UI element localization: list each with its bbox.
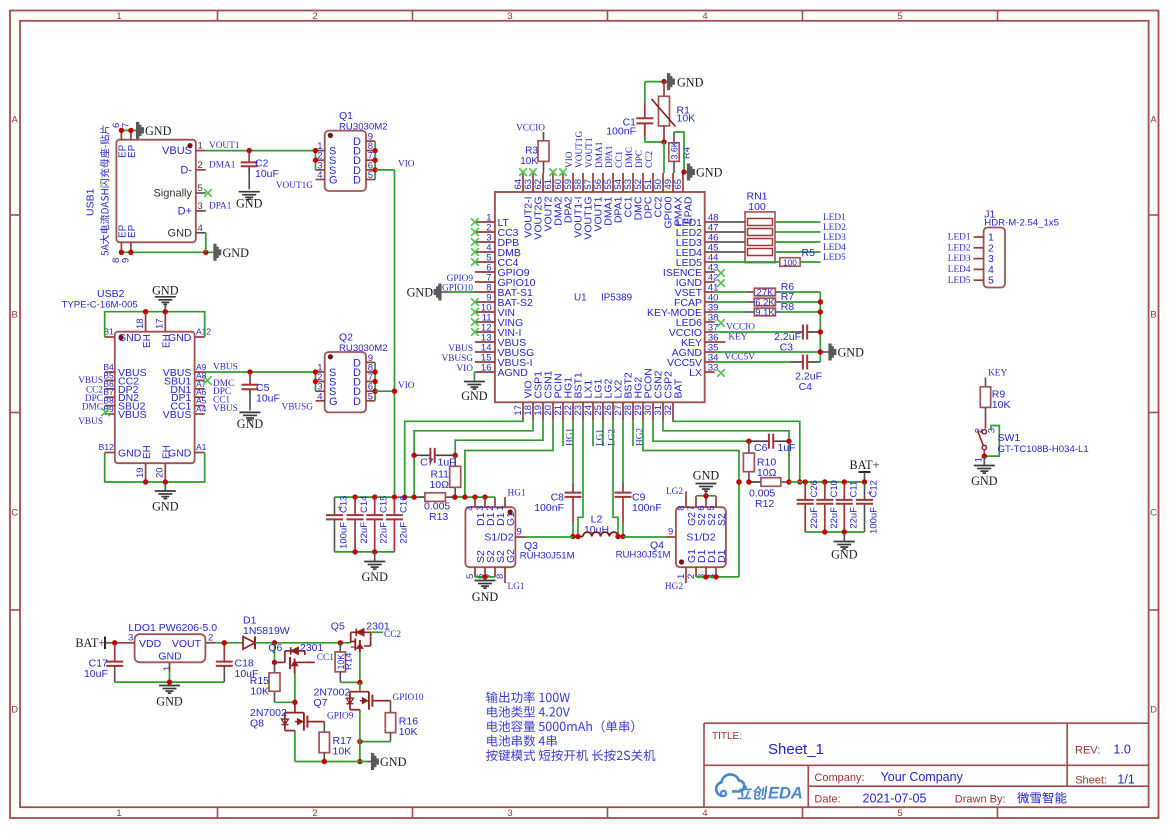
svg-text:100: 100 [748,201,766,213]
svg-text:VOUT1G: VOUT1G [575,131,585,168]
svg-text:GND: GND [118,448,142,460]
wire R16 bottom to Q7 source [360,741,391,743]
svg-text:R8: R8 [781,301,795,313]
svg-text:33: 33 [708,363,719,374]
svg-text:5: 5 [897,808,902,819]
wire L2 right to Q4 pin9 [623,536,666,538]
wire U1 pin17 VIO ladder [405,420,523,497]
svg-text:2: 2 [198,160,203,171]
svg-text:VIO: VIO [456,364,473,374]
svg-text:100nF: 100nF [534,502,564,514]
svg-text:USB2: USB2 [97,288,125,300]
svg-text:RUH30J51M: RUH30J51M [520,551,575,562]
wire Q4 S2 rail to GND [696,495,716,497]
wire Q6 drain down to node [294,674,296,703]
svg-text:22uF: 22uF [359,522,370,544]
resistor R8 9.1K [715,301,821,319]
wire U1 pin23 LX1 to L2 left [578,420,583,536]
svg-text:G2: G2 [505,549,517,563]
svg-text:1N5819W: 1N5819W [243,625,290,637]
svg-text:Company:: Company: [814,772,864,784]
svg-text:R13: R13 [429,511,448,523]
svg-text:2021-07-05: 2021-07-05 [863,792,927,806]
U1 left pins 1-16 [475,213,536,380]
svg-text:HG1: HG1 [508,489,526,499]
capacitor C1 100nF [606,82,664,142]
svg-text:G: G [329,175,338,187]
wire R1 node to U1 pin50 [663,142,665,173]
capacitor C3 2.2uF [715,325,821,354]
svg-text:1uF: 1uF [778,442,796,454]
resistor R3 10K [520,132,549,173]
svg-text:D: D [11,705,18,716]
resistor R13 0.005 shunt [418,493,461,523]
svg-text:GND: GND [236,197,263,211]
svg-text:Drawn By:: Drawn By: [955,794,1006,806]
wire right caps bottom rail [805,531,864,533]
capacitor C16 22uF [386,496,410,552]
svg-text:VOUT1: VOUT1 [585,137,595,168]
svg-text:1: 1 [162,666,173,671]
svg-text:CC2: CC2 [384,630,401,640]
no-connect X USB2 B8 [101,408,109,416]
wire U1 pin20 PCIN ladder [465,420,553,497]
svg-text:3.6K: 3.6K [670,141,680,159]
svg-text:VBUS: VBUS [213,362,238,372]
wire Q7 source down to rail [359,711,361,762]
svg-text:CC1: CC1 [317,653,334,663]
svg-text:9.1K: 9.1K [755,308,775,319]
wire U1 pin31 CSP2 ladder right [663,420,789,482]
svg-text:10K: 10K [677,113,696,125]
resistor R15 10K [250,662,280,702]
transistor Q1 RU3030M2 [316,110,388,191]
title block [704,723,1149,807]
svg-text:DMA1: DMA1 [209,161,236,171]
svg-text:USB1: USB1 [85,188,97,216]
svg-text:D1: D1 [716,549,728,563]
svg-text:S1/D2: S1/D2 [484,532,513,544]
no-connect X on USB1 pin5 Signally [204,189,212,197]
svg-text:10Ω: 10Ω [429,479,449,491]
wire VBUS from USB2 A9 to Q2 [205,371,316,373]
resistor R14 10K [335,643,354,683]
svg-text:EP: EP [127,144,138,158]
ground GND below C5 [240,412,261,420]
svg-text:RU3030M2: RU3030M2 [339,122,388,133]
ground GND below USB2 [164,482,166,491]
svg-text:Date:: Date: [814,794,840,806]
no-connect X USB2 A8 [203,376,211,384]
wire U1 pin16 AGND down [473,371,476,373]
MOSFET Q6 2301 PMOS [268,642,323,673]
resistor R7 6.2K [715,291,821,309]
svg-text:AGND: AGND [498,367,529,379]
svg-text:5: 5 [368,170,373,181]
ground GND at U1 EPAD [684,171,687,173]
svg-text:4: 4 [317,391,322,402]
svg-text:C13: C13 [339,496,350,513]
ground GND below left caps [374,552,376,561]
connector J1 HDR-M-2.54_1x5 [974,208,1059,287]
ground GND below SW1 [983,456,985,465]
diode D1 1N5819W [243,615,290,650]
svg-text:S1/D2: S1/D2 [686,532,715,544]
wire U1 pin8 BAT-S1 to GND [441,291,450,293]
wire VIO from Q1 to bottom rail [375,169,394,171]
svg-text:REV:: REV: [1075,745,1100,757]
svg-text:GND: GND [696,166,723,180]
svg-text:C: C [11,508,18,519]
svg-text:GPIO10: GPIO10 [393,693,424,703]
svg-text:C6: C6 [754,442,768,454]
svg-text:LG1: LG1 [595,429,605,446]
capacitor C14 22uF [347,496,371,552]
svg-text:5: 5 [706,506,717,511]
svg-text:RU3030M2: RU3030M2 [339,343,388,354]
svg-text:VOUT1: VOUT1 [209,141,240,151]
svg-text:R12: R12 [755,498,774,510]
resistor R9 10K [980,378,1010,419]
svg-text:GPIO9: GPIO9 [327,712,354,722]
svg-text:3: 3 [507,808,512,819]
ground GND at AGND bus [820,351,829,353]
svg-text:DPA1: DPA1 [209,202,232,212]
svg-text:Q8: Q8 [250,718,264,730]
svg-text:LED3: LED3 [948,254,971,264]
svg-text:VIO: VIO [398,159,415,169]
svg-text:4: 4 [198,223,203,234]
svg-text:1: 1 [198,141,203,152]
svg-text:CC2: CC2 [645,151,655,168]
svg-text:GND: GND [223,246,250,260]
svg-text:C26: C26 [809,480,820,497]
svg-text:HG2: HG2 [665,582,683,592]
wire bottom gnd rail [295,761,368,763]
capacitor C4 2.2uF [715,355,822,393]
svg-text:100nF: 100nF [632,502,662,514]
svg-text:LED3: LED3 [823,233,846,243]
svg-text:LED2: LED2 [948,243,971,253]
resistor R11 10R [429,455,460,497]
svg-text:Q6: Q6 [268,642,282,654]
capacitor C15 22uF [366,496,390,552]
svg-text:GND: GND [237,417,264,431]
svg-text:5: 5 [897,11,902,22]
svg-text:GND: GND [971,474,998,488]
capacitor C17 10uF [84,643,123,682]
svg-text:DMC: DMC [82,403,103,413]
svg-text:3: 3 [198,201,203,212]
svg-text:U1: U1 [574,293,587,304]
svg-text:LDO1 PW6206-5.0: LDO1 PW6206-5.0 [128,622,217,634]
capacitor C26 22uF [797,480,821,532]
MOSFET Q8 2N7002 [250,702,311,731]
svg-text:GND: GND [461,389,488,403]
svg-text:R14: R14 [344,653,355,670]
svg-text:22uF: 22uF [379,522,390,544]
capacitor C13 100uF polarized [326,496,350,552]
svg-text:32: 32 [663,405,674,416]
notes text block [486,691,655,761]
svg-text:EDA: EDA [768,785,803,803]
MOSFET pair Q3 RUH30J51M [465,497,575,579]
svg-text:GND: GND [677,75,704,89]
svg-text:10K: 10K [992,399,1011,411]
svg-text:10uH: 10uH [584,524,609,536]
wire U1 pin22 BST1 down through C8 [572,420,574,483]
svg-text:BAT: BAT [673,378,685,398]
wire D1 node down to Q6 [274,643,276,663]
svg-text:10K: 10K [399,726,418,738]
svg-text:10K: 10K [520,156,538,167]
wire Q4 D1 rail to PCON vertical [696,576,739,578]
svg-text:B: B [1150,310,1156,321]
capacitor C18 10uF [216,643,259,682]
svg-text:IP5389: IP5389 [601,293,632,304]
svg-text:A12: A12 [196,327,211,337]
svg-text:C14: C14 [359,496,370,513]
svg-text:Signally: Signally [153,188,192,200]
capacitor C5 10uF [242,372,280,411]
svg-text:LED1: LED1 [823,213,846,223]
svg-text:Q7: Q7 [314,697,328,709]
wire R4 top to pin65 GND [674,132,684,173]
svg-text:GND: GND [145,124,172,138]
wire USB2 bottom rail to GND [105,453,205,483]
svg-text:10uF: 10uF [84,668,108,680]
wire R14 bottom to gate node [340,681,360,683]
svg-text:2: 2 [208,632,213,643]
wires HG1 LG1 LG2 HG2 stubs [562,420,564,446]
svg-text:GND: GND [693,469,720,483]
svg-text:C10: C10 [829,480,840,497]
wire Q3 S2 rail to GND [475,576,495,578]
wire U1 pin30 CSN2 ladder right [653,420,749,441]
ground GND at bottom rail [368,761,371,763]
resistor R1 10K NTC [652,82,696,142]
regulator LDO1 PW6206-5.0 [125,622,218,672]
svg-text:LX: LX [689,367,702,379]
svg-text:5: 5 [988,275,994,287]
wire USB1 EP top to GND [121,129,134,131]
svg-text:9: 9 [517,527,522,538]
svg-text:RUH30J51M: RUH30J51M [616,550,671,561]
svg-text:GND: GND [156,695,183,709]
svg-text:VBUS: VBUS [162,145,192,157]
capacitor C2 10uF [241,151,279,190]
svg-text:1: 1 [116,11,121,22]
svg-text:A: A [12,115,19,126]
svg-text:KEY: KEY [728,333,747,343]
net label LG1 at Q3 gate2 [504,577,506,583]
svg-text:Your Company: Your Company [881,770,964,784]
svg-text:C4: C4 [799,381,813,393]
svg-text:3: 3 [507,11,512,22]
capacitor C7 1uF [414,448,455,469]
resistor R10 10R [743,441,776,482]
wire BAT rail to caps [789,481,865,483]
svg-text:100uF: 100uF [339,522,350,549]
svg-text:GND: GND [118,332,142,344]
svg-text:EH: EH [142,334,153,348]
svg-text:3: 3 [987,428,998,433]
svg-text:4: 4 [702,808,707,819]
svg-text:A: A [1150,115,1157,126]
svg-text:LED5: LED5 [948,276,971,286]
svg-text:GND: GND [361,570,388,584]
svg-text:2: 2 [312,808,317,819]
svg-text:LED4: LED4 [823,243,846,253]
svg-text:Q5: Q5 [331,621,345,633]
wire USB2 EH top rail to GND [105,312,205,337]
MOSFET Q5 2301 PMOS [331,621,390,653]
capacitor C8 100nF [534,488,581,537]
svg-text:C11: C11 [848,481,859,498]
wire Q2 drain bracket [374,362,376,400]
svg-text:Q2: Q2 [339,332,353,344]
svg-text:4: 4 [702,11,707,22]
wire R13 to Q3 rail [455,496,495,498]
svg-text:C12: C12 [869,480,880,497]
svg-text:22uF: 22uF [809,507,820,529]
svg-text:D: D [353,396,361,408]
wire Q5 drain to CC2 [371,631,383,633]
svg-text:GND: GND [380,755,407,769]
wire U1 pin35 AGND to bus [715,351,821,353]
svg-text:GND: GND [407,286,434,300]
svg-text:D-: D- [180,164,192,176]
no-connect X U1 pins 43,42,38,33 [717,269,725,277]
svg-text:18: 18 [135,318,146,329]
svg-text:EP: EP [127,224,138,238]
svg-text:D: D [1150,705,1157,716]
wire D1 to Q5 main rail [255,642,351,644]
ground GND at U1 pin8 [434,284,441,300]
ground GND above Q4 [705,491,707,496]
svg-text:C16: C16 [398,496,409,513]
svg-text:VBUSG: VBUSG [281,403,313,413]
svg-text:GND: GND [152,500,179,514]
wires RN1 to LED1-4 labels [775,221,821,223]
svg-text:5: 5 [368,391,373,402]
wire USB1 EP bottom rail to GND [121,251,213,253]
MOSFET Q7 2N7002 [314,682,376,710]
ground GND below right caps [843,532,845,541]
wire LDO bottom rail [115,681,225,683]
wire LDO VOUT to D1 [215,642,243,644]
wire Q3 pin9 to L2 [525,536,573,538]
svg-text:BAT+: BAT+ [75,636,105,650]
switch SW1 GT-TC108B-H034-L1 [974,419,1089,463]
wire GND node above R1 [645,81,664,83]
svg-text:B12: B12 [99,442,114,452]
svg-text:C15: C15 [379,496,390,513]
ground GND at USB1 top [135,129,137,131]
svg-text:1: 1 [495,506,506,511]
svg-text:9: 9 [668,527,673,538]
svg-text:VBUS: VBUS [213,404,238,414]
net label HG1 at Q3 gate1 [504,496,506,499]
svg-text:Sheet:: Sheet: [1075,775,1107,787]
svg-text:10K: 10K [250,686,269,698]
capacitor C6 1uF [749,434,796,454]
transistor Q2 RU3030M2 [316,332,388,413]
svg-text:GT-TC108B-H034-L1: GT-TC108B-H034-L1 [998,444,1089,455]
svg-text:DPA1: DPA1 [605,145,615,168]
wire left caps bottom rail [335,551,395,553]
wire VOUT1 from USB1 VBUS to Q1 [206,150,316,152]
inductor L2 10uH [578,513,623,536]
IC U1 IP5389 [495,192,705,402]
svg-text:10uF: 10uF [255,168,279,180]
net label KEY at U1 pin36 [715,341,726,343]
svg-text:22uF: 22uF [848,507,859,529]
svg-text:20: 20 [155,467,166,478]
svg-text:VCCIO: VCCIO [726,322,755,332]
svg-text:4: 4 [317,170,322,181]
ground GND below U1 pin16 [464,382,485,390]
svg-text:DMC: DMC [625,147,635,168]
no-connect X U1 left pins [471,218,479,226]
svg-text:CC1: CC1 [615,151,625,168]
svg-text:65: 65 [673,179,684,190]
svg-text:SW1: SW1 [998,432,1021,444]
svg-text:KEY: KEY [988,368,1007,378]
svg-text:VBUS: VBUS [78,376,103,386]
svg-text:7: 7 [121,123,132,128]
svg-text:1: 1 [116,808,121,819]
svg-text:EH: EH [142,445,153,459]
svg-text:GND: GND [168,332,192,344]
capacitor C10 22uF [816,480,840,532]
wires U1 pins 48-45 to RN1 [715,221,746,223]
svg-text:VIO: VIO [565,151,575,168]
svg-text:10K: 10K [333,746,352,758]
svg-text:5: 5 [198,183,203,194]
svg-text:VBUSG: VBUSG [441,354,473,364]
wire Q1 drain bracket [374,141,376,179]
svg-text:D+: D+ [178,206,192,218]
svg-text:LG2: LG2 [666,487,683,497]
svg-text:100nF: 100nF [606,126,636,138]
U1 bottom pins 17-32 [513,368,685,420]
wire USB1 pin4 GND down [205,233,207,253]
ground GND below Q3 [484,577,486,580]
svg-text:DPC: DPC [635,150,645,168]
no-connect X U1 pins 64,63,61,60 [519,168,527,176]
svg-text:GND: GND [472,590,499,604]
wire left caps top rail [335,496,425,498]
svg-text:A4: A4 [196,404,207,414]
svg-text:100: 100 [783,257,797,267]
connector USB1 5A DASH charging socket [85,123,206,263]
wire U1 pin29 PCON ladder right [643,420,739,577]
svg-text:VBUS: VBUS [118,409,147,421]
svg-text:VBUS: VBUS [78,417,103,427]
svg-text:DMA1: DMA1 [595,141,605,168]
svg-text:R3: R3 [525,146,538,157]
svg-text:G: G [329,396,338,408]
resistor network RN1 100 [745,191,775,263]
svg-text:VBUS: VBUS [448,344,473,354]
resistor R4 3.6K [669,132,693,173]
svg-text:A1: A1 [196,442,207,452]
svg-text:19: 19 [135,467,146,478]
svg-text:VDD: VDD [139,638,162,650]
wire Q6 gate to CC1 [305,661,315,663]
wire Q7 gate to R16 GPIO10 [376,700,391,702]
